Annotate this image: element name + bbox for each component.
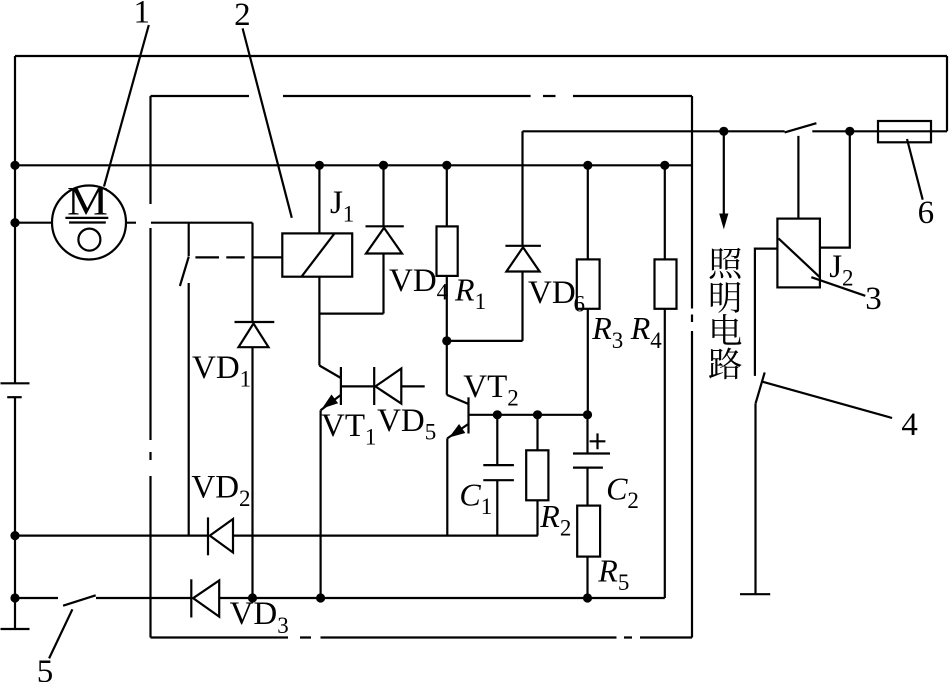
resistor R3 (577, 259, 600, 308)
capacitor C1 (496, 415, 498, 465)
wire: VD4 top lead (382, 165, 384, 226)
switch 4 blade (756, 372, 765, 403)
wire: motor to relay-contact branch (127, 222, 253, 224)
wire: VT2 emitter down (446, 438, 448, 535)
battery GB bottom plate (1, 628, 30, 630)
wire: outer top bus from battery + to fuse branch (15, 55, 947, 57)
node: left rail wire1 (10, 531, 19, 540)
svg-text:1: 1 (481, 494, 493, 519)
node: bus VD4 junction (379, 161, 388, 170)
node: bus-left junction (10, 161, 19, 170)
diode VD5 (373, 367, 375, 405)
node: lighting tap (719, 127, 728, 136)
motor M body (52, 186, 126, 260)
resistor R5 (577, 506, 600, 557)
mechanical link dashes to J1 (195, 256, 244, 258)
svg-text:VD: VD (389, 263, 437, 299)
wire: outer left rail (battery branch) (14, 56, 16, 629)
switch 5 blade (63, 595, 96, 605)
wire: J1 bottom lead / VT1 collector (318, 277, 320, 366)
motor armature circle (78, 229, 100, 251)
svg-text:2: 2 (507, 386, 519, 411)
svg-text:3: 3 (865, 281, 882, 317)
switch: J1 contact blade (180, 257, 189, 287)
svg-text:VD: VD (192, 350, 240, 386)
svg-text:VD: VD (191, 470, 239, 506)
svg-text:R: R (454, 272, 475, 308)
svg-text:VT: VT (321, 408, 365, 444)
node: base/C1 (493, 410, 502, 419)
svg-text:J: J (829, 249, 842, 285)
wire: motor node down through VD1 (251, 223, 253, 322)
wire: R1 top lead (446, 165, 448, 226)
svg-text:5: 5 (37, 654, 54, 682)
svg-text:4: 4 (901, 407, 918, 443)
label lighting-circuit char 明 (711, 282, 741, 313)
node: left rail wire2 (10, 593, 19, 602)
frame: dash-dot enclosure left (149, 96, 151, 638)
svg-text:J: J (330, 185, 343, 221)
svg-text:2: 2 (842, 266, 854, 291)
wire: R4 top lead (664, 165, 666, 259)
svg-text:1: 1 (240, 367, 252, 392)
svg-text:R: R (630, 310, 651, 346)
wire: bottom rail to VD3 (96, 597, 191, 599)
svg-text:1: 1 (365, 424, 377, 449)
capacitor C2 (electrolytic) (586, 415, 588, 454)
wire: node to VD6 branch (447, 340, 523, 342)
wire: battery to motor (15, 222, 52, 224)
svg-text:1: 1 (475, 289, 487, 314)
frame: dash-dot enclosure right (691, 96, 693, 638)
svg-text:2: 2 (239, 486, 251, 511)
svg-text:5: 5 (425, 419, 437, 444)
relay coil J1 (282, 233, 352, 276)
svg-text:2: 2 (234, 0, 251, 33)
node: base/R2 (533, 410, 542, 419)
node: bus J1 junction (315, 161, 324, 170)
arrow: to lighting circuit (723, 131, 725, 216)
wire: VT2 base line (469, 414, 588, 416)
wire: lighting feed corner down through VD6 (521, 131, 523, 246)
label lighting-circuit char 电 (712, 314, 741, 345)
wire: outer right drop to fuse (946, 56, 948, 131)
label 4 (762, 382, 892, 418)
node: bus R1 junction (442, 161, 451, 170)
label lighting-circuit char 照 (710, 248, 741, 279)
node: base/R3/C2 (583, 410, 592, 419)
node: left rail motor junction (10, 218, 19, 227)
svg-text:3: 3 (277, 613, 289, 638)
node: VD1 rail junction (248, 593, 257, 602)
relay coil J2 (777, 219, 820, 288)
diode VD1 (235, 321, 275, 323)
svg-text:6: 6 (574, 291, 586, 316)
node: R5 rail junction (583, 593, 592, 602)
switch: J1 contact upper lead (188, 223, 190, 256)
svg-text:M: M (67, 179, 108, 224)
diode VD2 (207, 517, 209, 555)
diode VD6 (505, 245, 541, 247)
svg-text:VT: VT (463, 369, 507, 405)
svg-text:VD: VD (377, 403, 425, 439)
node: R1/VD6/VT2 collector (442, 336, 451, 345)
battery GB top short plate (7, 396, 22, 398)
wire: J2 right lead up to feed (820, 131, 850, 247)
node: bus R4 junction (660, 161, 669, 170)
battery GB top long plate (1, 382, 30, 384)
frame: dash-dot enclosure top (151, 95, 693, 97)
svg-text:4: 4 (650, 328, 662, 353)
svg-text:R: R (539, 498, 560, 534)
svg-text:3: 3 (612, 328, 624, 353)
svg-text:2: 2 (627, 488, 639, 513)
svg-text:VD: VD (528, 275, 576, 311)
wire: bottom rail right segment (219, 597, 665, 599)
diode VD4 (366, 225, 404, 227)
wire: R3 top lead (587, 165, 589, 259)
transistor VT1 (319, 366, 341, 379)
svg-text:R: R (597, 552, 618, 588)
svg-text:5: 5 (618, 570, 630, 595)
svg-text:R: R (591, 310, 612, 346)
wire: switch 4 lower lead (754, 404, 756, 595)
resistor R4 (655, 259, 677, 308)
wire: J1 left lead (253, 256, 283, 258)
svg-text:C: C (459, 477, 481, 513)
node: VT1 emitter rail junction (316, 593, 325, 602)
wire: VD2 rail (15, 534, 208, 536)
ground terminal of switch 4 (740, 593, 770, 595)
label lighting-circuit char 路 (709, 348, 742, 380)
wire: J2 top lead (797, 136, 799, 219)
wire: bottom rail left segment (15, 597, 58, 599)
svg-text:1: 1 (343, 201, 355, 226)
wire: main horizontal bus (15, 164, 692, 166)
svg-text:2: 2 (560, 515, 572, 540)
fuse 6 (878, 121, 931, 142)
diode VD3 (190, 579, 192, 617)
wire: R4 bottom lead (664, 309, 666, 598)
wire: VT1 emitter down to bottom rail (320, 410, 322, 598)
svg-text:C: C (606, 471, 628, 507)
node: J2 feed tap (845, 127, 854, 136)
node: bus R3 junction (583, 161, 592, 170)
svg-text:6: 6 (918, 195, 935, 231)
frame: dash-dot enclosure bottom (151, 636, 693, 638)
label 3 (811, 277, 865, 296)
wire: J1 bottom to VD4 bottom (319, 313, 383, 315)
resistor R1 (437, 226, 458, 276)
switch: main switch blade (785, 123, 817, 132)
wire: contact lower lead down to VD2 rail (188, 283, 190, 536)
resistor R2 (536, 415, 538, 451)
wire: J1 top lead to bus (318, 165, 320, 233)
wire: J2 left lead to switch 4 (755, 249, 778, 376)
wire: lighting feed (523, 130, 785, 132)
label 6 (907, 139, 923, 200)
label 5 (49, 609, 72, 658)
transistor VT2 (446, 341, 448, 395)
